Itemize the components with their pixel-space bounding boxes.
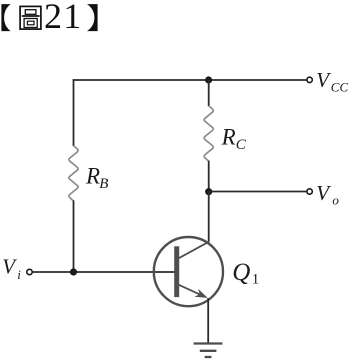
transistor Q1 base bar — [174, 246, 179, 297]
wire: emitter vertical — [207, 298, 209, 343]
svg-text:CC: CC — [331, 80, 349, 95]
terminal Vo — [307, 189, 312, 194]
node: Vcc rail junction — [205, 76, 212, 83]
glyph 圖 bottom box — [24, 19, 37, 28]
svg-text:V: V — [316, 181, 331, 205]
resistor RB — [69, 146, 78, 202]
node: base junction — [70, 268, 77, 275]
svg-text:B: B — [99, 176, 108, 192]
title 【圖 21】 — [1, 0, 97, 36]
svg-text:R: R — [85, 163, 100, 188]
node: collector / Vo junction — [205, 188, 212, 195]
terminal Vi — [27, 269, 32, 274]
transistor Q1 emitter arrowhead — [195, 289, 208, 298]
wire: left vertical lower (RB to base node) — [73, 201, 75, 273]
left bracket 【 — [1, 4, 10, 31]
right bracket 】 — [87, 4, 98, 31]
wire: top rail Vcc — [73, 79, 307, 81]
transistor Q1 emitter stroke — [179, 285, 203, 296]
wire: collector vertical — [208, 192, 210, 243]
glyph 圖 top small box — [25, 10, 36, 15]
svg-text:i: i — [17, 267, 21, 282]
wire: base horizontal — [32, 271, 174, 273]
wire: RC top stub — [208, 80, 210, 106]
glyph 圖 outer box — [20, 6, 41, 29]
wire: RC bottom to Vo node — [208, 161, 210, 192]
wire: Vo rail — [209, 191, 307, 193]
glyph 圖 middle bar — [22, 15, 40, 17]
svg-text:Q: Q — [232, 259, 250, 286]
svg-text:C: C — [236, 137, 247, 153]
transistor Q1 circle — [154, 237, 223, 306]
wire: left vertical upper (top rail to RB) — [73, 79, 75, 146]
glyph 圖 inner tick — [27, 21, 34, 25]
svg-text:V: V — [2, 254, 17, 278]
svg-text:R: R — [221, 124, 236, 149]
ground — [194, 344, 223, 358]
svg-text:o: o — [332, 193, 339, 208]
resistor RC — [204, 106, 213, 162]
svg-text:21: 21 — [44, 0, 83, 36]
transistor Q1 collector stroke — [179, 242, 209, 259]
terminal Vcc — [307, 77, 312, 82]
svg-text:V: V — [316, 68, 331, 92]
svg-text:1: 1 — [252, 272, 259, 288]
